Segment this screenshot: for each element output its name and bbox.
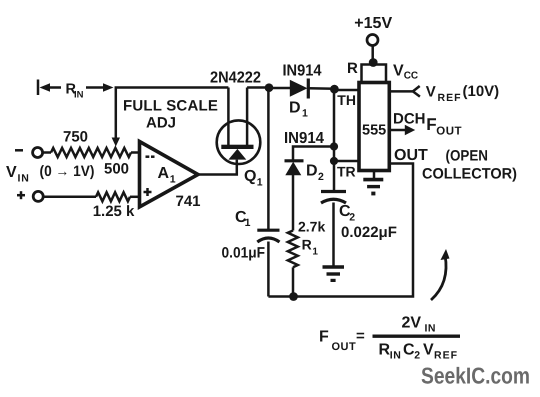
node bottom junction [289, 292, 298, 301]
wire curved arrow [431, 255, 446, 300]
svg-text:741: 741 [176, 193, 201, 210]
svg-text:C: C [403, 342, 415, 359]
svg-text:IN914: IN914 [284, 130, 324, 147]
terminal Vin minus [15, 149, 23, 152]
svg-text:1: 1 [312, 247, 318, 258]
resistor R1 2.7k [288, 231, 298, 268]
svg-text:IN: IN [18, 172, 30, 184]
Q1 gate arrow [228, 149, 246, 160]
wire R_IN right arrow [86, 86, 105, 89]
ground below 555 [373, 171, 376, 179]
wire TH to 555 [334, 89, 359, 92]
node TH junction [330, 85, 339, 94]
svg-text:R: R [302, 237, 312, 253]
svg-text:IN: IN [425, 323, 437, 335]
svg-text:IN: IN [390, 350, 402, 362]
svg-text:555: 555 [362, 123, 386, 139]
capacitor C2 plates [321, 190, 346, 193]
capacitor C1 top lead [267, 88, 270, 230]
svg-text:OUT: OUT [436, 126, 462, 138]
svg-text:IN914: IN914 [283, 63, 322, 80]
Q1 channel bar [221, 145, 253, 149]
svg-text:F: F [319, 329, 329, 346]
svg-text:2: 2 [318, 171, 324, 183]
svg-text:750: 750 [63, 129, 88, 146]
svg-text:0.022μF: 0.022μF [341, 224, 397, 241]
wire DCH Fout arrow [389, 129, 406, 132]
svg-text:OUT: OUT [332, 341, 357, 353]
resistor 750 + pot 500 zigzag [51, 148, 131, 157]
wire op-amp output to Q1 gate [198, 160, 237, 175]
svg-text:2: 2 [349, 212, 355, 224]
svg-text:REF: REF [438, 92, 462, 104]
svg-text:0.01μF: 0.01μF [222, 244, 266, 261]
resistor 1.25k [96, 192, 130, 201]
svg-text:TR: TR [337, 164, 356, 180]
node TR junction [330, 157, 338, 165]
svg-text:A: A [158, 165, 170, 182]
svg-text:Q: Q [244, 168, 256, 185]
node junction top [265, 83, 274, 92]
wire R / Vcc loop [362, 65, 387, 83]
wire TR to 555 [334, 160, 359, 163]
wire +15V down [371, 46, 374, 63]
svg-text:=: = [356, 328, 365, 345]
svg-text:1: 1 [302, 108, 308, 120]
node +15V junction [369, 58, 378, 67]
svg-text:1: 1 [257, 177, 263, 189]
svg-text:(10V): (10V) [463, 83, 500, 100]
svg-text:500: 500 [104, 161, 129, 178]
svg-text:CC: CC [404, 71, 418, 82]
svg-text:FULL SCALE: FULL SCALE [123, 98, 218, 115]
wire Vref output [389, 90, 413, 93]
svg-text:2.7k: 2.7k [298, 219, 325, 235]
svg-text:DCH: DCH [393, 111, 426, 128]
wire vertical net TH-TR-C2 [333, 89, 336, 192]
svg-text:IN: IN [74, 90, 84, 101]
wire D2 branch [293, 147, 334, 161]
terminal Vin plus [17, 194, 25, 197]
Q1 drain lead [227, 88, 230, 146]
wire plus terminal to 1.25k [43, 196, 96, 199]
wire pot to op-amp inverting input [131, 151, 140, 154]
svg-text:COLLECTOR): COLLECTOR) [422, 166, 517, 183]
svg-text:F: F [426, 115, 436, 134]
svg-text:1: 1 [245, 217, 251, 229]
node D2 junction [330, 142, 338, 150]
wire pot wiper arrow [112, 138, 120, 147]
op-amp U1 A1 741 triangle [140, 142, 199, 208]
svg-text:+15V: +15V [354, 15, 392, 32]
wire top rail from pot wiper to Q1 drain [116, 88, 229, 141]
capacitor C2 bottom lead [332, 203, 335, 266]
svg-text:1: 1 [170, 173, 176, 185]
capacitor C1 bottom lead [267, 242, 270, 297]
svg-text:R: R [379, 342, 391, 359]
wire terminal to resistor 750 [43, 151, 51, 154]
IC 555 box [359, 83, 389, 171]
svg-text:SeekIC.com: SeekIC.com [421, 363, 530, 389]
wire R_IN left arrow [44, 86, 61, 89]
svg-text:V: V [393, 63, 404, 80]
svg-text:2N4222: 2N4222 [210, 70, 261, 87]
Q1 source lead [246, 88, 249, 146]
node R_IN dimension bar [37, 80, 40, 96]
capacitor C1 plates [257, 229, 279, 232]
svg-text:V: V [426, 84, 436, 101]
svg-text:TH: TH [337, 92, 356, 108]
svg-text:R: R [347, 60, 358, 77]
wire 1.25k to op-amp + input [130, 196, 140, 199]
svg-text:ADJ: ADJ [146, 114, 176, 131]
svg-text:REF: REF [434, 350, 458, 362]
svg-text:1.25 k: 1.25 k [93, 203, 135, 220]
svg-text:(0 → 1V): (0 → 1V) [40, 163, 95, 180]
svg-text:V: V [6, 164, 17, 181]
diode D2 IN914 [285, 159, 304, 162]
wire OUT to bottom rail [268, 164, 413, 297]
wire Q1 source to node [247, 86, 269, 89]
svg-text:(OPEN: (OPEN [446, 147, 489, 164]
svg-text:D: D [289, 100, 301, 117]
op-amp inverting marker [146, 155, 150, 158]
diode D1 IN914 [269, 87, 290, 90]
svg-text:OUT: OUT [394, 147, 428, 164]
op-amp non-inverting marker [144, 191, 152, 194]
svg-text:2V: 2V [402, 315, 422, 332]
svg-text:2: 2 [414, 350, 420, 362]
svg-text:V: V [423, 342, 434, 359]
ground below C2 [323, 265, 345, 269]
transistor Q1 2N4222 JFET [217, 120, 261, 164]
svg-text:D: D [306, 163, 318, 180]
